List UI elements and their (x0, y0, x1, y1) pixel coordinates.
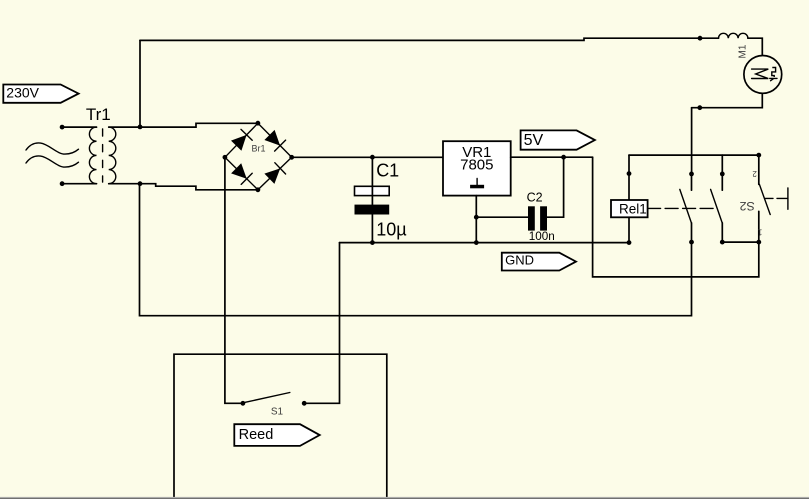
motor M1 tilde underline tick (771, 79, 774, 81)
relay contact 1 blade (680, 189, 692, 223)
AC wave symbol upper (26, 143, 79, 154)
junction dot VR1 gnd / GND rail (474, 240, 479, 245)
wire C2 right lead up to 5V wire (547, 157, 564, 217)
230V net flag (3, 84, 78, 102)
GND net flag (502, 253, 576, 271)
switch S2 plunger (777, 188, 788, 209)
wire bottom return rail (140, 184, 692, 316)
relay contact 1 bottom pin (691, 223, 693, 242)
wire 5V net down and right to S2 bottom (593, 157, 759, 277)
capacitor C2 left plate (528, 206, 535, 230)
transformer Tr1 primary pin dot bottom (60, 181, 65, 186)
5V net flag (521, 130, 595, 149)
wire secondary top to bridge top vertex (109, 123, 258, 127)
svg-text:5V: 5V (524, 132, 544, 149)
enclosure box around reed switch (174, 354, 387, 497)
relay actuation dashed link (648, 207, 717, 209)
svg-text:C2: C2 (527, 191, 543, 205)
motor M1 rotated tilde glyph (772, 68, 776, 78)
status bar edge dark (0, 498, 809, 499)
transformer Tr1 primary pin wire bottom (62, 183, 96, 185)
relay contact 2 bottom pin (721, 223, 723, 242)
relay Rel1 bottom pin wire (628, 217, 630, 242)
wire left vertical from top rail to transformer secondary top (139, 40, 141, 126)
svg-text:C1: C1 (376, 161, 399, 181)
capacitor C1 negative plate (355, 205, 390, 215)
reed switch S1 right contact dot (302, 401, 307, 406)
motor M1 inductor winding (719, 33, 748, 38)
switch S2 actuator stub (765, 197, 773, 199)
bridge Br1 vertex dot right (289, 155, 294, 160)
junction dot C1 bottom (370, 240, 375, 245)
wire C2 left lead (476, 216, 528, 218)
bridge Br1 vertex dot left (223, 155, 228, 160)
bridge Br1 diode top-left (231, 129, 252, 150)
svg-text:230V: 230V (6, 84, 39, 100)
VR1 ground tab symbol (470, 179, 484, 189)
svg-text:10µ: 10µ (376, 220, 406, 240)
junction dot C1 top (370, 155, 375, 160)
bridge Br1 vertex dot top (256, 121, 261, 126)
junction dot motor pin 1 (698, 36, 703, 41)
wire contact net top horizontal (629, 154, 759, 156)
junction dot contact 1 top (689, 172, 694, 177)
junction dot VR1 gnd / C2 left (474, 215, 479, 220)
wire bridge plus output to VR1 input (292, 156, 443, 158)
wire contact 2 bottom to S2 bottom (722, 241, 759, 243)
wire GND rail (340, 242, 629, 244)
svg-text:S2: S2 (740, 199, 755, 213)
switch S2 top pin (758, 155, 760, 184)
svg-text:2: 2 (752, 169, 757, 178)
relay coil Rel1 top pin wire (628, 155, 630, 200)
svg-text:Reed: Reed (239, 427, 274, 443)
junction dot contact 2 top (720, 172, 725, 177)
junction dot secondary bottom / return branch (138, 181, 143, 186)
wire VR1 ground pin down to GND rail (475, 196, 477, 243)
AC wave symbol lower (26, 156, 79, 167)
wire secondary bottom to bridge bottom vertex (109, 184, 258, 190)
wire motor return down to contact 1 (691, 108, 693, 174)
junction dot 5V branch (561, 155, 566, 160)
svg-text:Rel1: Rel1 (619, 202, 647, 217)
op-amp regulator VR1 box (443, 141, 511, 195)
motor M1 circle (744, 56, 782, 94)
bridge Br1 vertex dot bottom (256, 187, 261, 192)
svg-text:M1: M1 (737, 44, 748, 58)
junction dot motor pin 2 (697, 105, 702, 110)
transformer Tr1 primary pin dot top (60, 125, 65, 130)
svg-text:GND: GND (505, 253, 534, 268)
junction dot Rel1 bottom pin on GND rail (627, 240, 632, 245)
svg-text:1: 1 (757, 228, 762, 237)
capacitor C2 right plate (540, 206, 547, 230)
junction dot S2 bottom (756, 240, 761, 245)
relay contact 2 top pin (721, 155, 723, 190)
svg-text:S1: S1 (271, 407, 284, 418)
svg-text:Tr1: Tr1 (86, 105, 111, 124)
svg-text:7805: 7805 (460, 157, 493, 174)
capacitor C1 positive plate (355, 186, 390, 195)
bridge Br1 diode bottom-right (264, 163, 285, 184)
relay coil Rel1 box (611, 200, 648, 217)
svg-text:Br1: Br1 (252, 144, 266, 154)
wire top rail from left corner to motor coil (140, 38, 719, 40)
junction dot contact 2 bottom (720, 240, 725, 245)
relay contact 1 top pin (691, 174, 693, 190)
transformer Tr1 secondary winding (109, 127, 116, 184)
transformer Tr1 core dashed line (102, 129, 104, 182)
Reed net flag (234, 424, 319, 446)
wire C1 vertical (371, 157, 373, 242)
bridge rectifier Br1 diamond outline (225, 123, 292, 190)
wire motor bottom lead (692, 93, 763, 107)
wire bridge minus down to reed switch S1 (225, 157, 243, 403)
motor M1 rotated M glyph (752, 69, 769, 78)
transformer Tr1 primary pin wire top (62, 126, 96, 128)
junction dot Rel1 top pin (627, 171, 632, 176)
bridge Br1 diode bottom-left (231, 163, 252, 184)
relay contact 2 blade (711, 189, 723, 223)
motor M1 tilde underline (770, 77, 777, 79)
junction dot contact 1 bottom (689, 240, 694, 245)
status bar edge light (0, 496, 809, 499)
junction dot secondary top / rail branch (138, 125, 143, 130)
reed switch S1 left contact dot (241, 401, 246, 406)
junction dot S2 top corner (756, 153, 761, 158)
wire VR1 output to 5V corner (511, 156, 593, 158)
transformer Tr1 primary winding (89, 127, 96, 184)
wire motor coil to circle (748, 38, 762, 55)
switch S2 bottom pin (758, 211, 760, 242)
wire GND corner down to reed switch right lead (304, 243, 339, 404)
switch S2 blade (759, 184, 770, 214)
bridge Br1 diode top-right (264, 130, 285, 151)
reed switch S1 blade (244, 393, 290, 403)
svg-text:100n: 100n (529, 230, 555, 243)
